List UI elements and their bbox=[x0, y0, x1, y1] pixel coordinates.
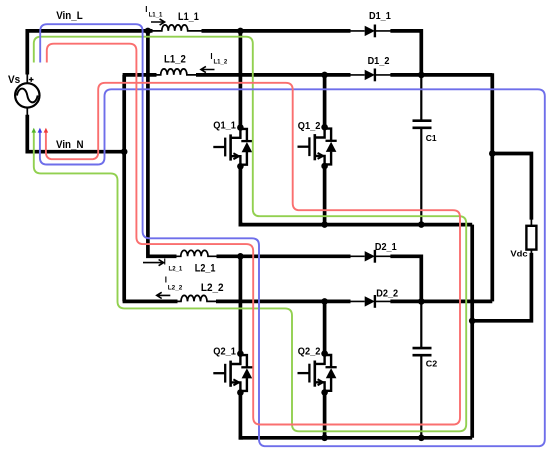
node right bus to Vdc bottom bbox=[469, 318, 476, 325]
wire Vin_L top (source to L1_1) bbox=[27, 31, 152, 75]
diode D2_2 bbox=[350, 289, 399, 308]
node Q1_2 source on upper rail bbox=[321, 221, 328, 228]
capacitor C1 bbox=[413, 121, 437, 143]
node C1/D1_1 junction on row2 bbox=[418, 72, 425, 79]
node Vin_N to N bus bbox=[121, 148, 128, 155]
wire row3 left (L bus corner to L2_1) drawn with x148 above; middle bbox=[217, 254, 351, 258]
wire C2 bottom lead bbox=[420, 355, 422, 438]
node C2/D2_1 junction on row4 bbox=[418, 298, 425, 305]
inductor L1_1 bbox=[152, 25, 202, 31]
node C2 bottom on lower rail bbox=[418, 435, 425, 442]
wire D1_1 cathode to corner down to D1_2 row bbox=[390, 31, 421, 75]
svg-text:L1_1: L1_1 bbox=[178, 11, 199, 23]
svg-text:I: I bbox=[165, 275, 167, 284]
svg-text:D1_2: D1_2 bbox=[368, 56, 390, 67]
diode D1_1 bbox=[350, 11, 392, 37]
wire Q1_2 source column bbox=[323, 166, 327, 225]
wire lower rail bbox=[239, 436, 472, 440]
svg-text:D2_2: D2_2 bbox=[376, 289, 398, 300]
svg-text:L1_2: L1_2 bbox=[214, 59, 228, 66]
arrowhead blue (into source) bbox=[38, 128, 43, 133]
resistor (load) Vdc bbox=[510, 226, 536, 259]
current label I_L1_1 with arrow bbox=[145, 5, 164, 25]
node Q2_2 source on lower rail bbox=[321, 435, 328, 442]
svg-text:L2_2: L2_2 bbox=[168, 284, 183, 291]
current path red loop bbox=[46, 44, 460, 425]
wire vertical x148 (L bus: top wire down to L2_1 row) bbox=[148, 29, 177, 256]
svg-text:Vs: Vs bbox=[8, 74, 20, 86]
svg-text:Q1_2: Q1_2 bbox=[298, 121, 321, 132]
wire C2 top lead bbox=[420, 301, 422, 348]
svg-text:C1: C1 bbox=[426, 133, 437, 143]
wire output bus x492 (row2 to row4) bbox=[490, 73, 494, 301]
svg-text:Q1_1: Q1_1 bbox=[213, 120, 236, 131]
svg-text:L2_2: L2_2 bbox=[201, 282, 224, 294]
wire row2 right (D1_2 to output bus corner) bbox=[390, 73, 492, 77]
diode D1_2 bbox=[350, 56, 392, 81]
svg-text:Vin_N: Vin_N bbox=[56, 139, 84, 151]
wire Q1_2 drain column bbox=[323, 75, 327, 127]
current path green loop bbox=[34, 37, 466, 432]
wire Vdc bottom link bbox=[530, 249, 532, 254]
wire Q2_2 drain column bbox=[323, 301, 327, 353]
node Q2_1 drain tap on row3 bbox=[237, 253, 244, 260]
capacitor C2 bbox=[413, 348, 438, 369]
svg-text:Vdc: Vdc bbox=[510, 249, 528, 259]
svg-text:L2_1: L2_1 bbox=[169, 265, 183, 272]
wire Q2_1 drain column bbox=[239, 256, 243, 353]
node Q2_2 drain tap on row4 bbox=[321, 298, 328, 305]
wire row2 middle (L1_2 to D1_2) bbox=[196, 73, 351, 77]
svg-text:I: I bbox=[164, 257, 166, 266]
diode D2_1 bbox=[350, 242, 398, 263]
svg-text:L1_1: L1_1 bbox=[149, 12, 163, 19]
wire Q1_1 drain column bbox=[239, 29, 243, 127]
arrowhead green (into source) bbox=[32, 128, 37, 133]
current label I_L1_2 with arrow bbox=[201, 52, 228, 73]
svg-text:I: I bbox=[210, 52, 212, 61]
svg-text:C2: C2 bbox=[426, 359, 438, 369]
AC source Vs bbox=[8, 74, 40, 117]
node C1 bottom on upper rail bbox=[418, 221, 425, 228]
wire C1 column top (D1_1 drop to row2) done above; C1 leads bbox=[420, 75, 422, 121]
wire row4 left (to L2_2) bbox=[123, 300, 178, 304]
svg-text:Q2_1: Q2_1 bbox=[213, 347, 236, 358]
svg-text:D2_1: D2_1 bbox=[375, 242, 397, 253]
inductor L2_2 bbox=[177, 295, 217, 301]
wire row4 middle (L2_2 to D2_2) bbox=[216, 300, 351, 304]
node L bus tap on top wire bbox=[145, 28, 152, 35]
current label I_L2_2 with arrow bbox=[157, 275, 183, 298]
wire right bus x471 (upper rail to lower rail) bbox=[470, 225, 474, 438]
wire vertical x124 (N bus: row2 left end down to row4 left end) bbox=[122, 75, 126, 302]
wire Vdc top link bbox=[492, 154, 531, 220]
svg-text:Vin_L: Vin_L bbox=[56, 10, 83, 22]
wire Q1_1 source column to upper rail corner bbox=[240, 166, 243, 224]
current label I_L2_1 with arrow bbox=[143, 257, 183, 272]
wire Vin_N bottom (source to node) bbox=[27, 115, 123, 152]
wire top between L1_1 and D1_1 bbox=[202, 29, 351, 33]
arrowhead red (into source) bbox=[44, 128, 49, 133]
wire C1 bottom lead bbox=[420, 128, 422, 225]
node output bus to Vdc top bbox=[489, 150, 496, 157]
wire Q2_1 source column to lower rail bbox=[240, 393, 243, 438]
svg-text:L2_1: L2_1 bbox=[195, 263, 216, 275]
wire row4 right (D2_2 to output bus) bbox=[390, 300, 492, 304]
svg-text:L1_2: L1_2 bbox=[164, 54, 186, 66]
transistor Q1_2 bbox=[298, 121, 337, 169]
wire row2 left (to L1_2) bbox=[123, 73, 157, 77]
wire D2_1 cathode corner down to row4 bbox=[390, 256, 421, 301]
transistor Q2_1 bbox=[213, 347, 252, 396]
transistor Q1_1 bbox=[213, 120, 252, 169]
transistor Q2_2 bbox=[298, 347, 337, 396]
svg-text:I: I bbox=[145, 5, 147, 14]
node Q1_2 drain tap on row2 bbox=[321, 72, 328, 79]
inductor L2_1 bbox=[176, 250, 217, 256]
wire upper rail bbox=[239, 223, 472, 227]
inductor L1_2 bbox=[156, 69, 196, 75]
svg-text:Q2_2: Q2_2 bbox=[298, 347, 321, 358]
svg-text:D1_1: D1_1 bbox=[369, 11, 391, 22]
wire Q2_2 source column bbox=[323, 393, 327, 438]
node: junction dots bbox=[121, 28, 496, 442]
node Q1_1 drain tap on top wire bbox=[237, 28, 244, 35]
